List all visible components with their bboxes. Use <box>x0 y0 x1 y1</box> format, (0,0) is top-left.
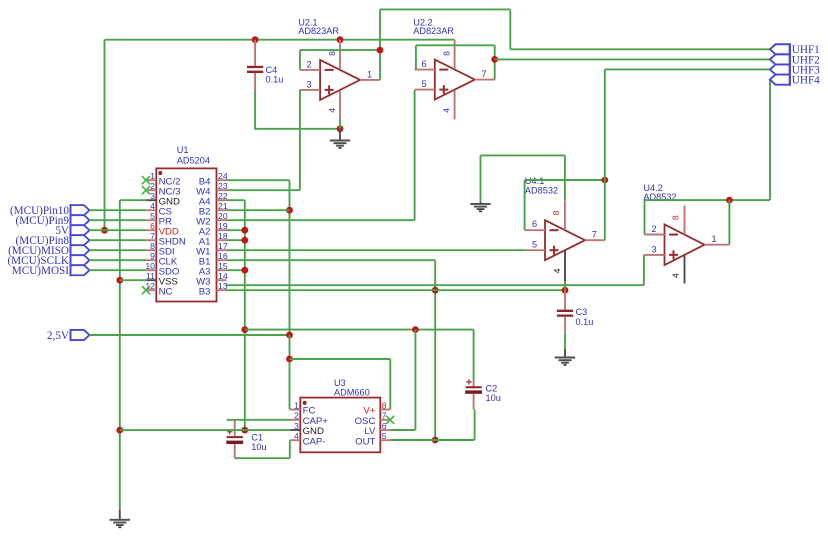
label C4 <box>266 65 278 75</box>
svg-text:4: 4 <box>671 273 681 278</box>
pin number U2.1 pin8 <box>327 51 337 56</box>
op-amp U2.1 pin4 lead <box>339 91 341 119</box>
net label 5V <box>55 225 69 237</box>
wire U4.2 output riser <box>728 200 730 245</box>
svg-text:C3: C3 <box>576 307 588 317</box>
pin name U1 SDO <box>159 266 180 277</box>
wire MCU row 6 <box>90 229 147 231</box>
svg-text:OUT: OUT <box>355 436 375 447</box>
pin number U3 pin 6 <box>382 421 387 431</box>
wire A3 stub wire <box>227 269 245 271</box>
wire A1 stub wire <box>227 239 245 241</box>
wire A-chain vertical <box>244 200 246 430</box>
pin name U1 VSS <box>159 276 178 287</box>
svg-text:7: 7 <box>481 69 486 79</box>
svg-text:11: 11 <box>146 271 155 281</box>
op-amp U4.2 pin2 stub <box>645 234 665 236</box>
pin number U1 pin 5 <box>150 211 155 221</box>
pin number U1 pin 24 <box>218 171 228 181</box>
IC U1 pin 21 stub <box>217 209 227 211</box>
junction 5V rail / U2.1 pin8 <box>337 36 344 43</box>
pin number U1 pin 7 <box>150 231 155 241</box>
IC U3 pin 2 stub <box>290 419 300 421</box>
net label UHF2 <box>792 54 820 66</box>
svg-text:AD823AR: AD823AR <box>413 26 454 36</box>
wire MCU row 4 <box>90 209 147 211</box>
pin number U1 pin 22 <box>218 191 228 201</box>
wire CAP+ to C1 <box>227 419 291 421</box>
svg-text:2,5V: 2,5V <box>47 330 69 342</box>
op-amp U4.1 pin7 stub <box>585 239 605 241</box>
ground left of U4.1 <box>470 202 490 211</box>
pin number U1 pin 16 <box>218 251 228 261</box>
IC U1 pin 3 stub <box>146 199 156 201</box>
IC U3 pin 6 stub <box>380 429 390 431</box>
net label UHF3 <box>792 64 820 76</box>
IC U1 pin 6 stub <box>146 229 156 231</box>
op-amp U4.2 pin3 stub <box>645 254 665 256</box>
op-amp U2.1 pin2 stub <box>300 69 320 71</box>
junction B1 / Vneg row <box>432 287 439 294</box>
svg-text:8: 8 <box>551 210 561 215</box>
pin number U4.2 pin8 <box>671 215 681 220</box>
svg-text:AD8532: AD8532 <box>525 185 558 195</box>
junction A-chain / C1 row <box>241 427 248 434</box>
IC U1 pin 15 stub <box>217 269 227 271</box>
capacitor C1 bottom lead <box>234 444 236 458</box>
wire 5V riser left <box>104 40 106 231</box>
wire UHF1 horizontal <box>510 48 770 50</box>
IC U1 pin 4 stub <box>146 209 156 211</box>
label U4.2 <box>643 183 662 193</box>
IC U3 pin 8 stub <box>380 409 390 411</box>
connector 2,5V <box>71 329 90 341</box>
label U1 value AD5204 <box>177 155 210 165</box>
svg-text:1: 1 <box>711 234 716 244</box>
wire A4 to A-chain <box>227 199 245 201</box>
wire B3 row (Vneg) <box>226 289 566 291</box>
pin number U1 pin 11 <box>146 271 155 281</box>
svg-text:2: 2 <box>651 224 656 234</box>
svg-text:AD823AR: AD823AR <box>298 26 339 36</box>
pin number U4.2 pin4 <box>671 273 681 278</box>
pin number U1 pin 13 <box>218 281 228 291</box>
IC U1 pin 8 stub <box>146 249 156 251</box>
wire MCU row 10 <box>90 269 147 271</box>
junction GND / VSS <box>116 277 123 284</box>
svg-text:19: 19 <box>218 221 228 231</box>
IC U1 pin 18 stub <box>217 239 227 241</box>
IC U3 pin 5 stub <box>380 439 390 441</box>
wire U2.1 pin4 to gnd junction <box>339 119 341 129</box>
pin number U4.2 pin3 <box>651 244 656 254</box>
pin name U3 OUT <box>355 436 375 447</box>
label U2.2 <box>413 18 432 28</box>
pin name U1 A1 <box>199 236 211 247</box>
svg-text:6: 6 <box>382 421 387 431</box>
wire 2,5V horizontal <box>90 334 290 336</box>
wire GND net pin3 corner <box>120 199 147 201</box>
IC U3 orientation dot <box>303 401 307 405</box>
IC U1 pin 9 stub <box>146 259 156 261</box>
wire AGND row <box>245 329 474 331</box>
wire VSS to stub <box>120 279 147 281</box>
svg-text:8: 8 <box>382 400 387 410</box>
capacitor C2 plus sign <box>466 379 471 384</box>
svg-text:21: 21 <box>218 201 228 211</box>
junction AGND / LV riser <box>412 326 419 333</box>
wire UHF1 riser <box>509 9 511 49</box>
pin number U2.2 pin7 <box>481 69 486 79</box>
pin name U3 V+ <box>363 406 375 417</box>
pin number U1 pin 18 <box>218 231 228 241</box>
pin number U1 pin 2 <box>150 181 155 191</box>
label U4.2 value AD8532 <box>643 192 676 202</box>
label U2.1 value AD823AR <box>298 26 339 36</box>
wire MCU row 5 <box>90 219 147 221</box>
pin number U4.1 pin7 <box>592 229 597 239</box>
svg-text:18: 18 <box>218 231 228 241</box>
IC U3 pin 4 stub <box>290 439 300 441</box>
op-amp U4.1 pin4 lead <box>564 250 566 281</box>
wire UHF3 horizontal <box>605 68 770 70</box>
wire U2.2 feedback horizontal <box>416 44 495 46</box>
wire U2.1 feedback vertical <box>379 9 381 80</box>
label C2 value 10u <box>486 393 501 403</box>
IC U1 pin 19 stub <box>217 229 227 231</box>
pin number U1 pin 9 <box>150 251 155 261</box>
IC U1 pin 12 stub <box>146 289 156 291</box>
IC U3 pin 7 stub <box>380 419 390 421</box>
svg-text:0.1u: 0.1u <box>576 317 594 327</box>
svg-text:7: 7 <box>592 229 597 239</box>
wire U4.1 pin4 to Vneg <box>564 281 566 290</box>
op-amp U4.1 pin8 lead <box>564 200 566 230</box>
svg-text:4: 4 <box>150 201 155 211</box>
svg-text:17: 17 <box>218 241 228 251</box>
junction U2.1 feedback <box>377 47 384 54</box>
pin name U1 SHDN <box>159 236 186 247</box>
op-amp U4.1 <box>545 220 585 260</box>
capacitor C1 plus sign <box>227 429 232 434</box>
wire U4.2 feedback horizontal <box>645 199 771 201</box>
capacitor C1 plates <box>226 437 243 444</box>
label U2.1 <box>298 18 317 28</box>
wire U4.2 feedback riser <box>644 200 646 234</box>
pin name U1 A2 <box>199 226 211 237</box>
pin name U1 B1 <box>199 256 211 267</box>
wire B-chain vertical <box>289 180 291 335</box>
svg-text:14: 14 <box>218 271 228 281</box>
ground bottom left <box>110 510 130 527</box>
svg-text:C1: C1 <box>251 433 263 443</box>
junction B2 / B-chain <box>286 207 293 214</box>
pin number U1 pin 6 <box>150 221 155 231</box>
capacitor C4 plates <box>247 67 263 72</box>
pin name U1 GND <box>159 196 180 207</box>
svg-text:1: 1 <box>294 400 299 410</box>
capacitor C3 plates <box>557 311 573 316</box>
svg-text:3: 3 <box>294 421 299 431</box>
junction U2.1 pin4 / gnd <box>337 125 344 132</box>
wire MCU row 9 <box>90 259 147 261</box>
svg-text:3: 3 <box>150 191 155 201</box>
wire B4 to B-chain <box>227 179 290 181</box>
svg-text:6: 6 <box>532 219 537 229</box>
op-amp U2.1 pin8 lead <box>339 40 341 70</box>
svg-text:1: 1 <box>367 69 372 79</box>
wire U4.1 feedback riser <box>525 180 565 230</box>
pin name U3 GND <box>303 426 324 437</box>
wire U2.2 output riser <box>494 45 496 79</box>
wire V+ branch <box>290 359 391 410</box>
wire C1 minus to CAP- <box>235 440 291 458</box>
pin name U1 A3 <box>199 266 211 277</box>
junction A1 / A-chain <box>241 237 248 244</box>
IC U1 pin 10 stub <box>146 269 156 271</box>
capacitor C4 bottom lead <box>254 73 256 90</box>
svg-text:CAP-: CAP- <box>303 436 326 447</box>
svg-text:8: 8 <box>671 215 681 220</box>
net label (MCU)SCLK <box>7 255 69 267</box>
svg-text:4: 4 <box>327 108 337 113</box>
wire B1 vertical <box>434 260 436 440</box>
svg-text:16: 16 <box>218 251 228 261</box>
wire LV riser <box>390 330 415 430</box>
junction U2.2 output / UHF2 <box>491 56 498 63</box>
IC U3 pin 1 stub <box>290 409 300 411</box>
no-connect X U1 pin2 <box>142 186 150 194</box>
IC U1 pin 1 stub <box>146 179 156 181</box>
pin name U1 NC/2 <box>159 176 181 187</box>
pin number U4.1 pin6 <box>532 219 537 229</box>
svg-text:10: 10 <box>145 261 155 271</box>
wire U2.2 feedback riser to pin6 <box>415 45 417 69</box>
pin number U4.1 pin8 <box>551 210 561 215</box>
svg-text:5: 5 <box>150 211 155 221</box>
pin number U3 pin 7 <box>382 411 387 421</box>
net label (MCU)Pin8 <box>16 235 70 247</box>
pin number U1 pin 15 <box>218 261 228 271</box>
svg-text:4: 4 <box>552 268 562 273</box>
svg-text:7: 7 <box>150 231 155 241</box>
junction B-chain / 2,5V <box>286 332 293 339</box>
pin number U2.2 pin4 <box>441 108 451 113</box>
IC U1 pin 23 stub <box>217 189 227 191</box>
label U4.1 value AD8532 <box>525 185 558 195</box>
svg-text:4: 4 <box>294 431 299 441</box>
pin number U4.1 pin4 <box>552 268 562 273</box>
junction B1 / OUT row <box>432 437 439 444</box>
wire B2 stub to chain <box>227 209 290 211</box>
wire U4.1 output riser <box>604 180 606 240</box>
net label UHF4 <box>792 75 820 87</box>
svg-text:6: 6 <box>150 221 155 231</box>
wire 2,5V down to FC <box>289 335 292 410</box>
pin name U1 W2 <box>196 216 210 227</box>
svg-text:NC: NC <box>159 286 173 297</box>
svg-text:5: 5 <box>532 240 537 250</box>
IC U1 pin 17 stub <box>217 249 227 251</box>
junction A-chain / AGND row <box>241 326 248 333</box>
pin number U4.2 pin1 <box>711 234 716 244</box>
pin name U1 CS <box>159 206 172 217</box>
pin number U3 pin 5 <box>382 431 387 441</box>
pin name U1 PR <box>159 216 172 227</box>
net label (MCU)MISO <box>8 245 69 257</box>
wire UHF2 horizontal <box>495 58 770 60</box>
IC U1 box <box>156 168 216 301</box>
pin number U1 pin 3 <box>150 191 155 201</box>
no-connect X U1 pin1 <box>142 176 150 184</box>
label U3 <box>334 378 346 388</box>
IC U3 box <box>300 398 380 453</box>
wire C2 top riser <box>473 330 475 380</box>
pin name U1 B3 <box>199 286 211 297</box>
pin number U3 pin 2 <box>294 411 299 421</box>
svg-text:2: 2 <box>306 59 311 69</box>
svg-text:10u: 10u <box>486 393 501 403</box>
pin number U3 pin 4 <box>294 431 299 441</box>
label C2 <box>486 383 498 393</box>
pin number U1 pin 17 <box>218 241 228 251</box>
capacitor C4 top lead <box>254 40 256 66</box>
junction Vneg / C3 <box>562 287 569 294</box>
capacitor C3 bottom lead <box>564 317 566 334</box>
capacitor C1 top lead <box>234 420 236 436</box>
IC U1 pin 13 stub <box>217 289 227 291</box>
IC U1 pin 16 stub <box>217 259 227 261</box>
pin name U1 CLK <box>159 256 178 267</box>
pin number U2.1 pin2 <box>306 59 311 69</box>
junction A3 / A-chain <box>241 267 248 274</box>
label U1 <box>177 145 189 155</box>
svg-text:3: 3 <box>651 244 656 254</box>
svg-text:10u: 10u <box>251 442 266 452</box>
pin number U1 pin 4 <box>150 201 155 211</box>
net label (MCU)Pin9 <box>16 215 70 227</box>
junction GND / C1 row <box>116 427 123 434</box>
svg-text:C2: C2 <box>486 383 498 393</box>
wire C4 to gnd riser <box>254 90 340 128</box>
connector MCU header <box>71 204 90 276</box>
pin number U2.2 pin8 <box>441 51 451 56</box>
svg-text:0.1u: 0.1u <box>266 75 284 85</box>
svg-text:3: 3 <box>306 79 311 89</box>
wire MCU row 7 <box>90 239 147 241</box>
pin number U1 pin 14 <box>218 271 228 281</box>
IC U3 pin 3 stub <box>290 429 300 431</box>
svg-text:20: 20 <box>218 211 228 221</box>
wire A2 stub wire <box>227 229 245 231</box>
svg-text:8: 8 <box>441 51 451 56</box>
svg-text:15: 15 <box>218 261 228 271</box>
wire U4.1 feedback horizontal <box>565 179 605 181</box>
svg-text:U1: U1 <box>177 145 189 155</box>
pin name U1 NC/3 <box>159 186 181 197</box>
wire GND vertical left <box>119 200 121 510</box>
op-amp U2.2 pin8 lead <box>454 40 456 69</box>
op-amp U2.2 pin6 stub <box>415 69 435 71</box>
svg-text:6: 6 <box>421 59 426 69</box>
pin number U3 pin 3 <box>294 421 299 431</box>
net label UHF1 <box>792 44 820 56</box>
wire U4.1 pin8 supply loop <box>481 155 565 202</box>
svg-text:5: 5 <box>421 79 426 89</box>
net label (MCU)Pin10 <box>10 205 69 217</box>
op-amp U2.2 <box>435 60 475 100</box>
pin name U1 NC <box>159 286 173 297</box>
label C3 <box>576 307 588 317</box>
svg-text:23: 23 <box>218 181 228 191</box>
wire U2.1 output top loop <box>380 8 510 10</box>
junction 2,5V / V+ branch <box>286 356 293 363</box>
wire U4.2 pin3 riser <box>643 255 646 285</box>
IC U1 pin 20 stub <box>217 219 227 221</box>
pin name U3 FC <box>303 406 316 417</box>
op-amp U4.2 <box>665 224 705 265</box>
junction 5V rail / C4 <box>252 36 259 43</box>
wire UHF4 riser <box>769 80 771 201</box>
capacitor C2 bottom lead <box>473 394 475 410</box>
junction U4.1 feedback / UHF3 <box>601 177 608 184</box>
wire C3 to ground <box>564 334 566 350</box>
IC U1 pin 14 stub <box>217 279 227 281</box>
junction A2 / A-chain <box>241 227 248 234</box>
label U3 value ADM660 <box>334 387 370 397</box>
IC U1 pin 5 stub <box>146 219 156 221</box>
pin number U2.1 pin1 <box>367 69 372 79</box>
op-amp U4.1 pin6 stub <box>525 229 545 231</box>
capacitor C3 top lead <box>564 290 566 310</box>
pin number U1 pin 1 <box>150 171 155 181</box>
no-connect X U3 pin7 OSC <box>386 416 394 424</box>
pin number U1 pin 20 <box>218 211 228 221</box>
pin name U1 VDD <box>159 226 179 237</box>
wire 5V top rail <box>105 39 455 41</box>
capacitor C2 plates <box>465 387 482 394</box>
pin number U2.1 pin3 <box>306 79 311 89</box>
pin number U1 pin 21 <box>218 201 228 211</box>
svg-text:7: 7 <box>382 411 387 421</box>
wire U2.2 pin5 down to U1 W2 <box>225 90 415 221</box>
wire GND row to U3 <box>120 429 290 431</box>
pin number U1 pin 19 <box>218 221 228 231</box>
svg-text:UHF4: UHF4 <box>792 75 820 87</box>
svg-text:B3: B3 <box>199 286 211 297</box>
capacitor C2 top lead <box>473 380 475 387</box>
pin number U3 pin 1 <box>294 400 299 410</box>
pin name U1 A4 <box>199 196 211 207</box>
op-amp U4.2 pin8 lead <box>684 206 686 235</box>
pin number U2.2 pin6 <box>421 59 426 69</box>
pin name U1 SDI <box>159 246 175 257</box>
ground below U2.1 <box>330 129 350 148</box>
pin number U1 pin 10 <box>145 261 155 271</box>
wire U2.1 pin3 down to U1 W4 <box>225 90 300 190</box>
pin number U1 pin 23 <box>218 181 228 191</box>
junction 5V riser / VDD wire <box>101 227 108 234</box>
svg-text:C4: C4 <box>266 65 278 75</box>
net label 2,5V <box>47 330 69 342</box>
svg-text:2: 2 <box>150 181 155 191</box>
svg-text:ADM660: ADM660 <box>334 387 370 397</box>
pin name U1 B2 <box>199 206 211 217</box>
svg-text:1: 1 <box>150 171 155 181</box>
wire U2.1 feedback horizontal <box>300 49 380 51</box>
pin number U4.2 pin2 <box>651 224 656 234</box>
wire B1 stub wire <box>227 259 436 261</box>
